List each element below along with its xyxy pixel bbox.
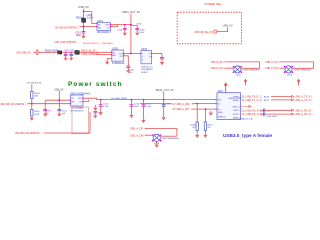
ground below C205 — [64, 58, 68, 61]
ground below R207 — [203, 130, 207, 138]
svg-text:USB3.0_type A female: USB3.0_type A female — [223, 133, 273, 138]
net label USB_SEL_5V inside dashed box — [194, 30, 213, 34]
dashed option box — [177, 12, 241, 44]
ground below R206 — [195, 130, 199, 138]
net label row2 right — [295, 98, 314, 102]
arrow glyph row5 — [292, 113, 294, 115]
wire U203 out right — [152, 52, 163, 54]
wire fuse to FB202 — [38, 51, 57, 53]
ground below C208 — [160, 62, 164, 65]
wire bypass to U201 IN — [84, 12, 98, 24]
svg-text:SY6280AAC: SY6280AAC — [112, 62, 125, 65]
svg-text:GB USB3_5V: GB USB3_5V — [16, 50, 31, 54]
svg-text:SYS_USB_HUB_EN: SYS_USB_HUB_EN — [27, 82, 42, 84]
svg-text:10uF: 10uF — [76, 35, 82, 37]
svg-text:J2_USB_RX_N_C: J2_USB_RX_N_C — [242, 113, 263, 116]
svg-text:AP2141WG-7: AP2141WG-7 — [97, 31, 112, 34]
svg-text:DLW21SN900SQ2: DLW21SN900SQ2 — [162, 138, 180, 140]
wire R204 to node — [31, 98, 33, 103]
common-mode choke L202 — [233, 66, 261, 77]
power net VBUS_OUT_5V (bottom) — [155, 88, 174, 92]
net label USB3_EN (stacked) — [81, 52, 102, 56]
svg-text:R204: R204 — [34, 93, 40, 95]
ground below C214 — [141, 120, 145, 123]
svg-text:USB3_TX_DN_C: USB3_TX_DN_C — [265, 66, 279, 70]
wire SSTX- — [265, 109, 292, 111]
wire DPWRON right and up — [44, 112, 90, 133]
net label row1 right — [295, 95, 314, 99]
svg-text:J2 USB_A_DP 〈〉: J2 USB_A_DP 〈〉 — [172, 107, 195, 111]
net label USB_HUB_PWRON1_R / USB3_PWREN1 — [83, 41, 115, 45]
capacitor C207 (mid row) — [69, 50, 75, 58]
svg-text:SD05C: SD05C — [141, 72, 148, 74]
svg-text:GB USB_HUB_PWRON1: GB USB_HUB_PWRON1 — [55, 25, 77, 29]
ground below C201 — [81, 36, 85, 39]
capacitor C211 — [57, 109, 67, 115]
node junction DM — [196, 103, 198, 105]
wire USB_5V down — [58, 91, 60, 110]
svg-text:POWER SEL: POWER SEL — [205, 2, 222, 6]
svg-text:〉: 〉 — [78, 25, 81, 29]
wire U201 OUT to rail — [111, 24, 131, 26]
caption USB3.0 type A female — [223, 133, 273, 138]
node junction rail mid — [130, 53, 132, 55]
capacitor C209 — [43, 100, 52, 115]
svg-text:C204: C204 — [117, 29, 123, 31]
wire SSRX- — [271, 96, 292, 98]
arrow glyph row1 — [292, 95, 294, 97]
net label USB3_TX_DN_C — [265, 66, 279, 70]
wire DP to connector — [192, 108, 217, 110]
pin number 2 — [215, 104, 217, 106]
resistor R204 — [31, 91, 41, 98]
svg-text:USB3_RX_DP_C: USB3_RX_DP_C — [211, 60, 225, 64]
power net USB_5V (in dashed box) — [223, 24, 233, 28]
node junction USB_5V/IN — [58, 99, 60, 101]
net label USB_HUB_PWRON1 — [55, 25, 81, 29]
wire choke right top — [161, 135, 177, 137]
svg-text:1uF: 1uF — [62, 113, 66, 115]
fuse F201 — [36, 50, 38, 54]
pin dots U201 — [96, 23, 111, 27]
wire USB_5V down to node — [83, 9, 85, 18]
svg-text:VBUS_OUT_5V: VBUS_OUT_5V — [122, 11, 140, 14]
ground below C203 — [135, 33, 139, 36]
ground below C206 — [126, 70, 130, 73]
svg-text:USB_HUB_PWRON1: USB_HUB_PWRON1 — [54, 40, 76, 44]
capacitor C212 — [94, 111, 104, 115]
ground below C213 — [129, 115, 133, 118]
wire C209 top to U205 IN wire — [45, 99, 70, 101]
net class text below connector — [239, 118, 253, 121]
wire FB203 to U202 pin1 — [80, 51, 112, 53]
svg-text:C203: C203 — [136, 24, 142, 26]
net label J2 USB_A_DP — [172, 107, 195, 111]
wire SSTX+ — [265, 113, 292, 115]
svg-text:DLW21SN900SQ2: DLW21SN900SQ2 — [294, 70, 312, 72]
net label USB3_RX_DP_C — [211, 60, 225, 64]
net label SSTX- row — [242, 109, 262, 112]
series resistor tag row1 — [264, 97, 270, 99]
svg-text:J2 USB_A_DM 〈〉: J2 USB_A_DM 〈〉 — [172, 102, 195, 106]
ground below choke — [155, 141, 159, 147]
capacitor C205 (mid row) — [64, 50, 70, 58]
ground below R205 — [30, 116, 34, 121]
wire DM to connector — [192, 103, 217, 105]
svg-text:USB3_TX_DP_C: USB3_TX_DP_C — [265, 60, 279, 64]
wire U202 OC down to C206 — [124, 56, 129, 66]
power arrow VBUS (left pair) — [244, 79, 248, 86]
svg-text:OUT: OUT — [105, 25, 110, 27]
ground below C212 — [93, 115, 97, 118]
title Power switch — [68, 81, 123, 88]
svg-text:USB_A_OC: USB_A_OC — [141, 65, 153, 68]
net label USB3_RX_DN_C — [211, 66, 225, 70]
ferrite bead FB203 — [75, 50, 80, 54]
ground below C209 — [43, 114, 47, 117]
svg-text:SSRX-: SSRX- — [233, 96, 240, 98]
wire SSRX+ — [271, 99, 292, 101]
node junction VBUS drop — [163, 99, 165, 101]
wire VBUS_OUT_5V drop — [163, 92, 165, 100]
net label USB_A_DM (bottom) — [130, 133, 148, 137]
net label USB3_5V — [16, 50, 34, 54]
net label on VBUS wire — [111, 98, 128, 100]
svg-text:5CURRENT: 5CURRENT — [141, 69, 154, 71]
op-amp U205 power switch — [70, 92, 91, 112]
wire ferrite to main node — [83, 23, 85, 27]
svg-text:FB202 600R: FB202 600R — [45, 50, 58, 52]
svg-text:J2_USB_RX_P_C: J2_USB_RX_P_C — [242, 109, 262, 112]
net label SYS_USB_HUB_EN — [27, 82, 42, 84]
connector J201 USB3 receptacle — [217, 90, 242, 119]
svg-text:NC: NC — [193, 127, 197, 129]
capacitor C214 — [142, 99, 152, 120]
node glyph option jumper — [214, 30, 217, 33]
svg-text:+5V USB_VBUS: +5V USB_VBUS — [111, 98, 128, 100]
wire DM feed — [140, 103, 171, 105]
net label GB2 USB_HUB_DPWRON — [15, 131, 45, 135]
svg-text:USB3_PWREN1 〉: USB3_PWREN1 〉 — [81, 52, 102, 56]
pin dots U202 — [111, 52, 124, 57]
capacitor C203 — [131, 24, 145, 35]
net label row4 right — [295, 108, 314, 112]
power arrow VBUS (right pair) — [297, 79, 301, 86]
svg-text:OC: OC — [106, 27, 110, 29]
svg-text:SHIELD: SHIELD — [218, 117, 226, 119]
wire main VBUS rail to connector — [96, 99, 217, 101]
svg-text:R205: R205 — [34, 111, 40, 113]
wire R206 drop — [196, 104, 198, 122]
wire DP to corner — [145, 128, 177, 136]
op-amp U202 power switch — [112, 48, 125, 65]
svg-text:1uF: 1uF — [129, 72, 133, 74]
wire EN down — [31, 84, 33, 91]
net label SSRX+ row — [242, 99, 262, 102]
feedback loop wire (pink rectangle) — [72, 107, 88, 134]
net label GB2 USB_HUB_PWRON1 — [0, 102, 28, 106]
svg-text:Power switch: Power switch — [68, 81, 123, 88]
pin dots U203 — [140, 53, 152, 57]
svg-text:GB2 USB_HUB_PWRON1: GB2 USB_HUB_PWRON1 — [0, 102, 24, 106]
wire RX_DP to choke — [225, 62, 259, 68]
capacitor C215 — [162, 100, 172, 117]
svg-text:10uF: 10uF — [139, 32, 145, 34]
pin dots U205 — [70, 98, 84, 105]
power net USB_5V (top) — [78, 5, 89, 9]
stub GND_DRAIN row — [240, 105, 251, 109]
svg-text:VBUS_OUT_5V: VBUS_OUT_5V — [155, 88, 174, 92]
wire PWRON1 to U205 — [28, 103, 71, 105]
svg-text:EN: EN — [98, 27, 101, 29]
wire label to fuse — [34, 51, 37, 53]
wire jumper to USB_5V — [217, 27, 228, 31]
svg-text:R210: R210 — [264, 97, 270, 99]
power net USB_5V (power switch) — [54, 89, 64, 92]
wire U205 OC — [83, 100, 88, 102]
pin number 3 — [215, 109, 217, 111]
svg-text:0.1uF: 0.1uF — [103, 106, 109, 108]
net label SSTX+ row — [242, 113, 263, 116]
svg-text:AP2141WG-7: AP2141WG-7 — [71, 109, 85, 112]
svg-text:USB_A_TX_P 〉: USB_A_TX_P 〉 — [295, 95, 314, 99]
svg-text:SSTX+: SSTX+ — [233, 114, 240, 116]
ESD diode U203 — [141, 48, 154, 74]
svg-text:USB_A_RX_N 〉: USB_A_RX_N 〉 — [295, 112, 314, 116]
ground U202 — [105, 59, 112, 65]
capacitor C210 — [99, 99, 109, 112]
ferrite bead FB201 — [76, 15, 93, 23]
series resistor tag row2 — [264, 100, 270, 102]
power net VBUS_OUT_5V (top) — [122, 11, 140, 14]
svg-text:NC: NC — [208, 127, 212, 129]
node junction DP — [205, 108, 207, 110]
capacitor C206 — [126, 66, 134, 74]
wire U201 OC stub — [111, 25, 118, 27]
capacitor C208 (after U203) — [160, 53, 164, 61]
ground below C204 — [123, 33, 127, 36]
wire TX_DN to choke — [280, 67, 285, 69]
wire RX_DN to choke — [225, 67, 233, 69]
net label POWER SEL (title of dashed box) — [205, 2, 222, 6]
wire DM to choke — [145, 134, 152, 136]
svg-text:J2_USB_TX_N_C: J2_USB_TX_N_C — [242, 99, 262, 102]
resistor R206 — [191, 122, 199, 130]
net label USB3_TX_DP_C — [265, 60, 279, 64]
svg-text:2.2uH: 2.2uH — [87, 17, 93, 19]
common-mode choke L203 — [284, 66, 312, 77]
node junction at USB_5V — [83, 11, 85, 13]
resistor R205 — [31, 104, 41, 116]
net label row5 right — [295, 112, 314, 116]
svg-text:USB USB_SEL_5V: USB USB_SEL_5V — [194, 30, 213, 34]
svg-text:C207: C207 — [69, 50, 75, 52]
svg-text:VBUS_IN_5V 〉: VBUS_IN_5V 〉 — [81, 48, 99, 52]
wire EN to U202 pin2 — [96, 54, 112, 56]
capacitor C218 (series) — [260, 112, 277, 117]
svg-text:0.1uF: 0.1uF — [146, 106, 152, 108]
svg-text:SSTX-: SSTX- — [233, 110, 239, 112]
node junction rail/OUT — [130, 24, 132, 26]
net label J2 USB_A_DM — [172, 102, 195, 106]
svg-text:USB_A_TX_N 〉: USB_A_TX_N 〉 — [295, 98, 314, 102]
svg-text:GB2 USB_HUB_DPWRON 1: GB2 USB_HUB_DPWRON 1 — [15, 131, 41, 135]
svg-text:R211: R211 — [264, 100, 270, 102]
svg-text:USB_A_DP 〈: USB_A_DP 〈 — [130, 127, 147, 131]
capacitor C217 (series) — [260, 109, 272, 113]
ground below C211 — [57, 114, 61, 117]
svg-text:〈: 〈 — [42, 131, 45, 135]
node junction on PWRON wire — [83, 26, 85, 28]
svg-text:100K: 100K — [34, 114, 40, 116]
arrow glyph row2 — [292, 99, 294, 101]
wire FB202 to FB203 — [62, 51, 75, 53]
svg-text:C218 10uF: C218 10uF — [266, 116, 277, 118]
svg-text:USB_5V: USB_5V — [223, 24, 233, 28]
svg-text:USB3_ICT_A: USB3_ICT_A — [239, 118, 253, 121]
ground below C210 — [99, 112, 103, 115]
wire TX_DP to choke — [280, 62, 314, 68]
power arrow VBUS connector — [224, 82, 228, 93]
svg-text:USB_5V: USB_5V — [78, 5, 89, 9]
net label SSRX- row — [242, 96, 262, 99]
wire R207 drop — [204, 109, 206, 122]
ground near U205 right — [93, 105, 97, 111]
svg-text:DLW21SN900SQ2: DLW21SN900SQ2 — [243, 70, 261, 72]
net label USB_HUB_PWRON1 (mid) — [54, 40, 76, 44]
svg-text:GND: GND — [218, 112, 223, 114]
ground below C207 — [69, 58, 73, 61]
svg-text:SSRX+: SSRX+ — [233, 100, 241, 102]
capacitor C201 — [75, 27, 85, 37]
arrow glyph row4 — [292, 109, 294, 111]
wire U205 OUT to VBUS rail — [83, 98, 96, 99]
ground connector shell — [209, 111, 213, 116]
pin number 1 — [215, 100, 217, 102]
svg-text:10uF: 10uF — [134, 106, 140, 108]
net label USB_A_DP (bottom) — [130, 127, 147, 131]
wire label to U201 — [80, 26, 97, 28]
svg-text:D-: D- — [218, 103, 221, 105]
wire VBUS_OUT_5V rail vertical — [130, 14, 132, 54]
svg-text:USB_A_RX_P 〉: USB_A_RX_P 〉 — [295, 108, 314, 112]
wire U202 OUT to rail and U203 — [124, 52, 141, 54]
resistor R207 — [204, 122, 213, 130]
capacitor C213 — [130, 99, 140, 115]
svg-text:10K: 10K — [34, 96, 38, 98]
svg-text:USB3_RX_DN_C: USB3_RX_DN_C — [211, 66, 225, 70]
node junction R204/PWRON1 — [31, 103, 33, 105]
ground below C215 — [161, 117, 165, 120]
capacitor C204 — [117, 24, 127, 33]
common-mode choke L204 — [152, 134, 180, 145]
net label VBUS_5V (stacked) — [81, 48, 99, 52]
op-amp U201 power switch — [97, 20, 112, 34]
ferrite bead FB202 — [45, 50, 62, 54]
